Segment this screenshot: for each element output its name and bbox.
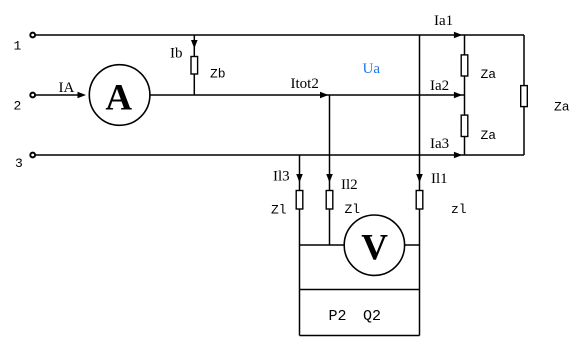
svg-text:P2: P2 — [329, 308, 347, 325]
svg-text:Q2: Q2 — [363, 308, 381, 325]
current arrow Il2 — [326, 174, 333, 183]
resistor zl (branch Il1) — [416, 191, 423, 210]
resistor Za (left rail lower) — [461, 115, 468, 136]
svg-text:Itot2: Itot2 — [291, 76, 319, 92]
terminal 1 — [30, 33, 35, 38]
wire vertical branch Il1 (x=419.5 from line1 down to box bottom) — [419, 35, 421, 191]
svg-text:2: 2 — [14, 99, 22, 114]
current arrow Ia2 — [454, 92, 463, 99]
resistor Zb — [191, 57, 198, 75]
svg-text:Ib: Ib — [170, 46, 183, 62]
svg-text:Il2: Il2 — [341, 177, 358, 193]
svg-text:Za: Za — [481, 67, 497, 82]
wire load left rail — [464, 35, 466, 155]
current arrow Il1 — [416, 174, 423, 183]
svg-text:zl: zl — [451, 202, 467, 217]
resistor Za (right rail) — [521, 86, 528, 107]
wire Zb branch upper — [193, 35, 195, 57]
svg-text:Zl: Zl — [345, 202, 361, 217]
svg-text:Ia3: Ia3 — [430, 136, 449, 152]
wire load bottom — [465, 154, 525, 156]
svg-text:Za: Za — [481, 128, 497, 143]
terminal 3 — [30, 153, 35, 158]
wire load right rail — [523, 35, 525, 155]
wire box middle line — [300, 289, 420, 291]
svg-text:Il1: Il1 — [431, 171, 448, 187]
svg-text:Zl: Zl — [271, 203, 287, 218]
wire load top — [465, 34, 525, 36]
wire phase line 2 left (terminal 2 to ammeter) — [36, 94, 80, 96]
wire voltmeter left lead — [300, 244, 345, 246]
svg-text:A: A — [105, 78, 132, 119]
terminal 2 — [30, 93, 35, 98]
current arrow Ia1 — [454, 32, 463, 39]
svg-text:Il3: Il3 — [273, 169, 290, 185]
current arrow Ia3 — [454, 152, 463, 159]
current arrow Il3 — [296, 174, 303, 183]
svg-text:Za: Za — [554, 100, 570, 115]
wire Il3 branch — [299, 155, 301, 191]
wire phase line 3 — [36, 154, 465, 156]
svg-text:3: 3 — [15, 156, 23, 171]
resistor Zl (branch Il3) — [296, 191, 303, 210]
svg-text:IA: IA — [59, 80, 75, 96]
wire box bottom line — [300, 335, 420, 337]
current arrow IA — [78, 92, 87, 99]
current arrow Ib — [191, 40, 198, 49]
wire phase line 2 right (ammeter to load) — [150, 94, 465, 96]
svg-text:1: 1 — [14, 39, 22, 54]
svg-text:Ia2: Ia2 — [430, 78, 449, 94]
resistor Za (left rail upper) — [461, 55, 468, 76]
wire Il2 branch — [329, 95, 331, 191]
current arrow Itot2 — [320, 92, 329, 99]
resistor Zl (branch Il2) — [326, 191, 333, 210]
svg-text:Zb: Zb — [210, 67, 226, 82]
svg-text:Ua: Ua — [363, 61, 381, 77]
svg-text:Ia1: Ia1 — [434, 13, 453, 29]
svg-text:V: V — [361, 228, 388, 269]
wire Zb branch lower — [193, 74, 195, 95]
ammeter A — [89, 65, 150, 126]
wire voltmeter right lead — [405, 244, 420, 246]
wire phase line 1 — [36, 34, 465, 36]
voltmeter V — [344, 215, 404, 275]
